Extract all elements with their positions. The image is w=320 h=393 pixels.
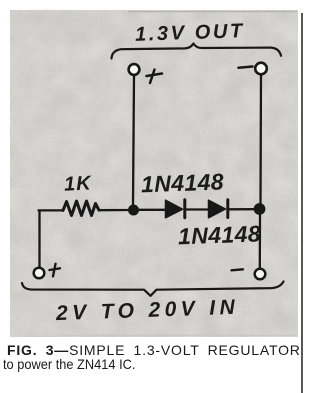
wire: left corner to resistor R1 [39,209,64,211]
wire: node A to diode D1 [139,209,166,211]
wire: output + terminal down to node A [133,76,134,206]
plus sign (output) [147,70,163,84]
svg-text:1.3V OUT: 1.3V OUT [135,20,245,46]
terminal - (output, right) [255,63,267,75]
wire: diode D1 to diode D2 [187,208,209,210]
wire: resistor R1 to node A [99,209,129,211]
caption line 2 [3,357,135,371]
magazine column rule (right edge) [301,13,303,393]
terminal + (output, left) [129,64,140,75]
wire: input + terminal up to resistor [38,211,40,267]
caption line 1 [7,343,301,357]
resistor R1 (1K) [63,201,99,216]
plus sign (input) [50,264,61,277]
wire: diode D2 to node B [230,208,256,210]
brace (input group) [22,282,284,296]
svg-text:1N4148: 1N4148 [141,168,225,197]
gray halftone panel background [10,10,298,337]
svg-text:1K: 1K [63,172,92,195]
diode D1 (1N4148) [166,200,183,218]
node A (junction dot) [128,205,139,216]
terminal - (input, right) [255,269,266,280]
brace (output group) [112,44,282,59]
wire: output - terminal down to node B [259,75,262,204]
svg-text:1N4148: 1N4148 [178,220,262,249]
minus sign (input) [232,269,244,270]
wire: node B down to input - terminal [259,215,262,269]
minus sign (output) [239,67,253,68]
terminal + (input, left) [34,268,45,279]
diode D2 (1N4148) [209,200,226,218]
node B (junction dot) [254,203,266,215]
